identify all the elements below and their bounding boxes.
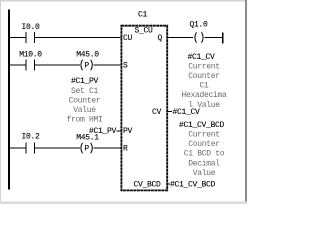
contact I0.2 (26, 143, 27, 154)
svg-text:Q1.0: Q1.0 (189, 21, 208, 30)
svg-text:M45.0: M45.0 (76, 51, 99, 60)
svg-text:S: S (123, 61, 128, 70)
svg-text:from HMI: from HMI (66, 116, 102, 125)
svg-text:#C1_CV: #C1_CV (187, 53, 215, 62)
svg-text:PV: PV (123, 127, 133, 136)
svg-text:Set C1: Set C1 (71, 87, 99, 96)
svg-text:Current: Current (188, 131, 220, 140)
svg-text:#C1_CV: #C1_CV (173, 108, 201, 117)
coil M45.1 positive edge (P) (81, 143, 92, 154)
wire rung2 rail to contact M10.0 (10, 65, 26, 66)
svg-text:Value: Value (193, 169, 216, 178)
svg-text:S_CU: S_CU (134, 27, 153, 36)
svg-text:Hexadecima: Hexadecima (181, 91, 227, 100)
svg-text:M10.0: M10.0 (19, 51, 42, 60)
wire rung1 contact to CU pin (35, 37, 121, 38)
left power rail (8, 10, 10, 190)
svg-text:Counter: Counter (188, 140, 220, 149)
wire rung2 coil to S pin (94, 65, 121, 66)
svg-text:Current: Current (188, 62, 220, 71)
svg-text:CV: CV (152, 108, 162, 117)
svg-text:#C1_PV: #C1_PV (71, 77, 99, 86)
wire CV output (168, 111, 172, 112)
svg-text:Counter: Counter (69, 96, 101, 105)
svg-text:Value: Value (73, 106, 96, 115)
wire rung3 rail to contact I0.2 (10, 148, 26, 149)
wire PV connection (117, 131, 121, 132)
right rail end bar (222, 33, 224, 44)
svg-text:#C1_PV: #C1_PV (89, 127, 117, 136)
contact I0.0 (26, 32, 27, 43)
svg-text:I0.2: I0.2 (21, 133, 40, 142)
contact M10.0 (26, 60, 27, 71)
wire rung3 contact to coil M45.1 (35, 148, 80, 149)
svg-text:CU: CU (123, 34, 133, 43)
coil M45.0 positive edge (P) (81, 60, 92, 71)
counter C1 S_CU function block box (121, 26, 167, 191)
svg-text:P: P (84, 61, 89, 70)
wire Q output to coil Q1.0 (168, 37, 193, 38)
coil Q1.0 output ( ) (195, 32, 203, 43)
svg-text:R: R (123, 144, 128, 153)
svg-text:Counter: Counter (188, 72, 220, 81)
svg-text:C1 BCD to: C1 BCD to (184, 150, 225, 159)
svg-text:#C1_CV_BCD: #C1_CV_BCD (179, 121, 225, 130)
wire rung2 contact to coil M45.0 (35, 65, 80, 66)
svg-text:I0.0: I0.0 (21, 23, 40, 32)
wire rung3 coil to R pin (94, 148, 121, 149)
svg-text:P: P (84, 144, 89, 153)
wire CV_BCD output (168, 184, 170, 185)
svg-text:C1: C1 (138, 11, 148, 20)
svg-text:CV_BCD: CV_BCD (133, 180, 161, 189)
svg-text:C1: C1 (199, 82, 209, 91)
svg-text:Decimal: Decimal (188, 159, 220, 168)
wire coil Q1.0 to end bar (205, 37, 223, 38)
svg-text:Q: Q (157, 34, 162, 43)
svg-text:#C1_CV_BCD: #C1_CV_BCD (170, 180, 216, 189)
wire rung1 rail to contact I0.0 (10, 37, 26, 38)
